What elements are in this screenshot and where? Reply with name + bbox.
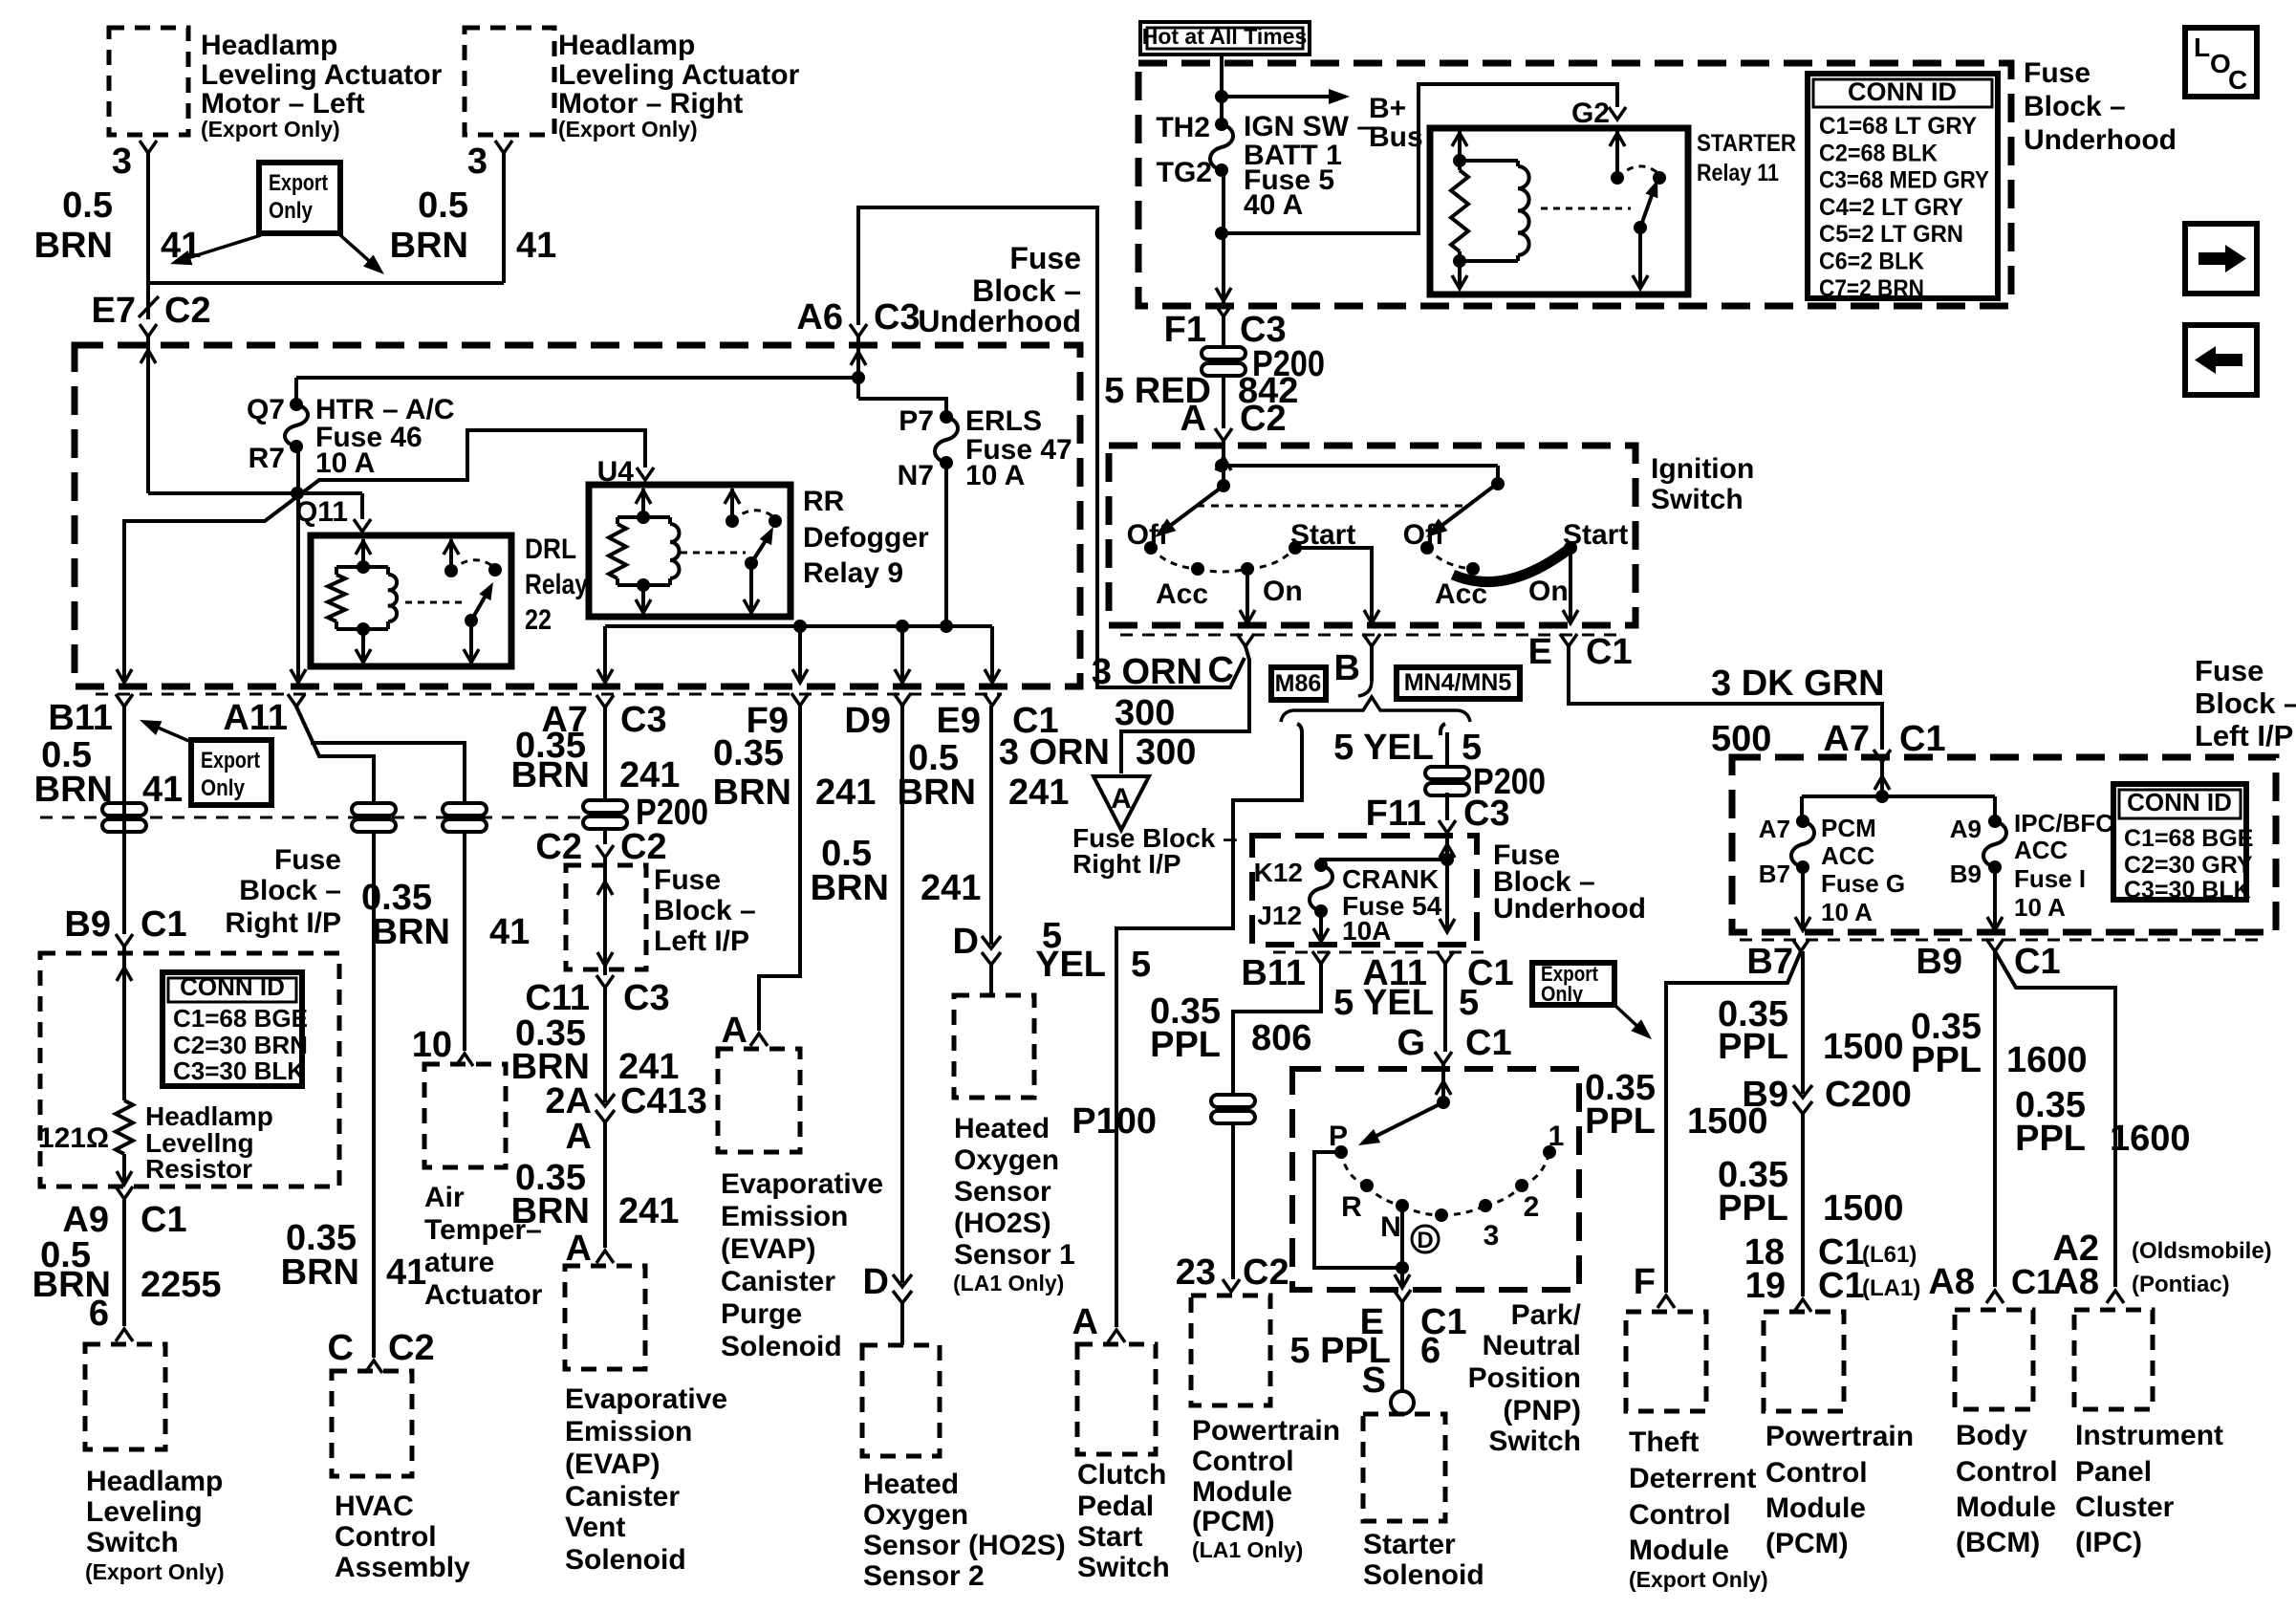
connector F theft module bbox=[1634, 1262, 1675, 1308]
svg-text:B9: B9 bbox=[1742, 1075, 1788, 1115]
svg-text:(PNP): (PNP) bbox=[1503, 1395, 1581, 1426]
svg-text:19: 19 bbox=[1745, 1266, 1786, 1306]
wire joining actuators bbox=[148, 281, 504, 285]
svg-text:Headlamp: Headlamp bbox=[201, 30, 337, 61]
connector G2 starter relay bbox=[1571, 98, 1626, 129]
svg-text:D9: D9 bbox=[844, 701, 891, 741]
wire E C1 3 DK GRN to A7 bbox=[1569, 646, 1882, 750]
connector A8 C1 bcm bbox=[1928, 1262, 2055, 1303]
svg-text:121Ω: 121Ω bbox=[38, 1122, 109, 1154]
starter relay coil lower pin bbox=[1452, 261, 1467, 289]
svg-text:PPL: PPL bbox=[1150, 1025, 1221, 1065]
wire A11 to G C1 bbox=[1443, 964, 1447, 1052]
svg-text:(Export Only): (Export Only) bbox=[558, 117, 698, 142]
arrow B+ Bus bbox=[1222, 89, 1423, 153]
label 5 YEL 5 clutch branch bbox=[1035, 916, 1151, 985]
label RR Defogger Relay 9 bbox=[803, 486, 929, 589]
pnp position labels bbox=[1329, 1121, 1564, 1253]
wire B11 to P100 branch bbox=[1233, 964, 1321, 1279]
svg-text:C: C bbox=[2228, 65, 2247, 95]
connector B7 left IP output bbox=[1746, 939, 1809, 982]
svg-text:C4=2 LT GRY: C4=2 LT GRY bbox=[1819, 194, 1963, 221]
connector A7 C1 left IP bbox=[1823, 719, 1945, 762]
svg-text:BRN: BRN bbox=[511, 1191, 590, 1231]
wire B9 fuse down bbox=[1987, 867, 2003, 930]
ignition switch box (dashed) bbox=[1109, 446, 1635, 625]
svg-text:C11: C11 bbox=[525, 978, 590, 1018]
wire B7 theft branch bbox=[1666, 951, 1801, 1293]
connector C C2 hvac bbox=[328, 1328, 435, 1373]
wire B with hook bbox=[1358, 646, 1372, 696]
label headlamp levelling resistor bbox=[145, 1101, 273, 1184]
svg-text:A6: A6 bbox=[796, 297, 843, 337]
pnp blade to P bbox=[1358, 1102, 1443, 1145]
label PCM ACC Fuse G 10 A bbox=[1821, 814, 1905, 926]
inline connector B9 C200 bbox=[1742, 1075, 1911, 1115]
svg-text:41: 41 bbox=[142, 770, 183, 810]
connector F11 C3 bbox=[1366, 793, 1510, 834]
svg-text:RR: RR bbox=[803, 486, 845, 517]
svg-text:Oxygen: Oxygen bbox=[954, 1144, 1059, 1176]
grommet B11 wire bbox=[102, 803, 146, 832]
wire and grommet P200 F1 bbox=[1202, 316, 1325, 428]
ignition switch 1 positions bbox=[1127, 519, 1356, 610]
svg-text:PPL: PPL bbox=[1718, 1027, 1788, 1067]
label fuse block left IP (pass-through) bbox=[654, 864, 756, 957]
bus wire to connectors A7 F9 D9 E9 bbox=[597, 620, 1000, 683]
wire F9 to evap purge bbox=[759, 706, 800, 1031]
wire B9 to BCM bbox=[1993, 951, 1997, 1287]
svg-text:3 ORN: 3 ORN bbox=[1092, 652, 1202, 692]
wire rail to IPC BFC fuse bbox=[1993, 796, 1997, 821]
label body control module BCM bbox=[1956, 1420, 2058, 1558]
svg-text:E7: E7 bbox=[92, 291, 136, 331]
conn id table underhood bbox=[1808, 74, 1998, 302]
label 0.35 BRN 41 hvac wire bbox=[281, 1218, 427, 1293]
svg-text:(EVAP): (EVAP) bbox=[565, 1448, 660, 1480]
svg-text:Export: Export bbox=[269, 170, 328, 196]
svg-text:C1=68 LT GRY: C1=68 LT GRY bbox=[1819, 113, 1977, 140]
connector A11 C1 crank output bbox=[1362, 951, 1513, 993]
svg-text:G: G bbox=[1397, 1023, 1425, 1063]
svg-text:BRN: BRN bbox=[34, 226, 113, 266]
svg-text:Fuse: Fuse bbox=[654, 864, 721, 896]
label headlamp leveling actuator motor right bbox=[558, 30, 800, 142]
headlamp leveling switch box bbox=[85, 1344, 165, 1449]
svg-text:A: A bbox=[566, 1229, 592, 1269]
hot at all times box bbox=[1140, 22, 1310, 54]
svg-text:300: 300 bbox=[1136, 732, 1196, 773]
starter relay coil bbox=[1453, 161, 1529, 268]
svg-text:Q11: Q11 bbox=[295, 496, 348, 528]
connector B11 crank output bbox=[1241, 951, 1330, 993]
wire A7 into left IP rail bbox=[1802, 762, 1995, 803]
svg-text:Headlamp: Headlamp bbox=[86, 1466, 223, 1497]
connector A evap purge solenoid bbox=[722, 1011, 768, 1051]
svg-text:41: 41 bbox=[386, 1252, 426, 1293]
connector C2 C2 bbox=[535, 827, 666, 867]
wire E7 into fuse block bbox=[141, 337, 156, 493]
svg-text:Module: Module bbox=[1192, 1476, 1292, 1508]
connector U4 defogger relay bbox=[597, 456, 654, 488]
connector boundary line below fuse block bbox=[96, 693, 1002, 696]
svg-text:(EVAP): (EVAP) bbox=[721, 1233, 815, 1265]
svg-text:MN4/MN5: MN4/MN5 bbox=[1404, 669, 1512, 696]
svg-text:C2: C2 bbox=[388, 1328, 435, 1368]
instrument panel cluster box bbox=[2074, 1310, 2153, 1409]
svg-text:N7: N7 bbox=[898, 460, 934, 491]
svg-text:3: 3 bbox=[1484, 1220, 1500, 1252]
inline connector 2A C413 bbox=[545, 1081, 706, 1122]
svg-text:Acc: Acc bbox=[1435, 578, 1487, 610]
svg-text:C413: C413 bbox=[620, 1081, 707, 1121]
svg-text:41: 41 bbox=[489, 912, 530, 952]
fuse 54 CRANK K12 J12 bbox=[1254, 858, 1332, 930]
label headlamp leveling switch bbox=[85, 1466, 225, 1584]
svg-text:B9: B9 bbox=[64, 904, 111, 945]
svg-text:STARTER: STARTER bbox=[1697, 130, 1796, 157]
svg-text:10 A: 10 A bbox=[965, 460, 1025, 491]
label 5 YEL 5 F11 branch bbox=[1333, 728, 1482, 768]
svg-text:10 A: 10 A bbox=[2014, 893, 2066, 922]
fuse block left IP box (dashed) bbox=[1732, 757, 2276, 932]
LOC reference box bbox=[2185, 28, 2257, 97]
wire ignition feed rail bbox=[1215, 441, 1505, 492]
resistor 121 ohm headlamp levelling bbox=[38, 1100, 133, 1154]
svg-text:PCM: PCM bbox=[1821, 814, 1876, 842]
svg-text:On: On bbox=[1528, 576, 1569, 607]
DRL relay coil pin bbox=[356, 539, 371, 574]
svg-text:Park/: Park/ bbox=[1511, 1299, 1582, 1331]
svg-text:L: L bbox=[2194, 33, 2210, 62]
label evap canister purge solenoid bbox=[721, 1168, 883, 1362]
svg-text:3 DK GRN: 3 DK GRN bbox=[1711, 664, 1885, 704]
svg-text:300: 300 bbox=[1115, 693, 1175, 733]
svg-text:5 YEL: 5 YEL bbox=[1333, 728, 1434, 768]
ignition switch 1 Start to B output bbox=[1295, 548, 1372, 621]
connector G C1 pnp bbox=[1397, 1023, 1511, 1064]
ignition switch 2 Start to E output bbox=[1569, 548, 1572, 621]
connector E9 C1 bbox=[937, 693, 1059, 741]
wire D9 to HO2S sensor 2 bbox=[811, 706, 982, 1283]
svg-text:HVAC: HVAC bbox=[335, 1491, 414, 1522]
svg-text:S: S bbox=[1362, 1361, 1386, 1401]
export only callout box 2 bbox=[191, 740, 271, 805]
label park neutral position switch bbox=[1468, 1299, 1582, 1457]
wire G into pnp bbox=[1436, 1064, 1451, 1109]
svg-text:Vent: Vent bbox=[565, 1512, 625, 1543]
connector pcm 18 19 bbox=[1794, 1299, 1811, 1312]
DRL relay coil bbox=[336, 567, 397, 636]
svg-text:Headlamp: Headlamp bbox=[145, 1101, 273, 1131]
wire C11 to C413 bbox=[511, 988, 680, 1102]
svg-text:C2=30 BRN: C2=30 BRN bbox=[173, 1031, 308, 1059]
label DRL Relay 22 bbox=[525, 533, 588, 636]
svg-text:G2: G2 bbox=[1571, 98, 1610, 129]
wire TG2 down to F1 bbox=[1215, 170, 1231, 303]
fuse 46 HTR A/C Q7 R7 bbox=[247, 378, 308, 474]
label 3 ORN 300 (upper) bbox=[1092, 652, 1202, 733]
svg-text:A8: A8 bbox=[2052, 1262, 2099, 1302]
svg-text:B9: B9 bbox=[1950, 860, 1982, 888]
svg-text:Relay 11: Relay 11 bbox=[1697, 160, 1779, 186]
wire resistor to A9 bbox=[117, 1154, 132, 1185]
fuse block underhood crank box (dashed) bbox=[1252, 836, 1477, 945]
svg-text:CONN ID: CONN ID bbox=[180, 972, 285, 1001]
svg-text:C: C bbox=[1208, 650, 1234, 690]
svg-text:241: 241 bbox=[815, 773, 876, 813]
evap canister purge solenoid box bbox=[718, 1049, 800, 1152]
svg-text:Fuse G: Fuse G bbox=[1821, 869, 1905, 898]
svg-text:0.5: 0.5 bbox=[62, 185, 113, 226]
svg-text:BRN: BRN bbox=[511, 755, 590, 795]
svg-text:Canister: Canister bbox=[565, 1481, 680, 1513]
svg-text:3: 3 bbox=[467, 142, 487, 182]
svg-text:Clutch: Clutch bbox=[1077, 1459, 1166, 1491]
fuse I IPC BFC ACC A9 B9 bbox=[1950, 815, 2006, 888]
clutch pedal start switch box bbox=[1077, 1344, 1156, 1454]
svg-text:Oxygen: Oxygen bbox=[863, 1499, 968, 1531]
svg-text:Left I/P: Left I/P bbox=[2195, 719, 2293, 752]
wire hot feed down bbox=[1215, 54, 1228, 124]
svg-text:Motor – Left: Motor – Left bbox=[201, 88, 365, 120]
wire through left IP box bbox=[597, 858, 613, 975]
svg-text:(Export Only): (Export Only) bbox=[85, 1559, 225, 1584]
svg-text:Solenoid: Solenoid bbox=[1363, 1559, 1484, 1591]
RR relay resistor bbox=[609, 517, 670, 585]
svg-text:D: D bbox=[1417, 1228, 1433, 1253]
svg-text:C1: C1 bbox=[141, 904, 187, 945]
svg-text:Hot at All Times: Hot at All Times bbox=[1142, 24, 1308, 49]
fuse G PCM ACC A7 B7 bbox=[1759, 815, 1814, 888]
starter relay linkage bbox=[1541, 207, 1631, 210]
svg-text:Sensor 2: Sensor 2 bbox=[863, 1560, 985, 1592]
grommet hvac wire bbox=[352, 803, 396, 832]
svg-text:2: 2 bbox=[1524, 1191, 1540, 1223]
arrows at ignition box bottom bbox=[1240, 610, 1578, 623]
svg-text:A: A bbox=[1072, 1302, 1098, 1342]
svg-text:IGN SW –: IGN SW – bbox=[1244, 111, 1373, 142]
svg-text:Purge: Purge bbox=[721, 1298, 802, 1330]
svg-text:(BCM): (BCM) bbox=[1956, 1527, 2040, 1558]
svg-text:23: 23 bbox=[1176, 1252, 1216, 1293]
svg-text:Off: Off bbox=[1403, 519, 1445, 551]
wire B+ to starter relay G2 bbox=[1222, 84, 1617, 233]
svg-text:Bus: Bus bbox=[1369, 121, 1423, 153]
svg-text:A: A bbox=[1111, 783, 1132, 815]
wire A6 junction to ERLS fuse bbox=[852, 337, 946, 417]
label 0.35 PPL 1600 left bbox=[1911, 1007, 2088, 1080]
wire J12 to B11 bbox=[1313, 911, 1329, 942]
connector 23 C2 pcm bbox=[1176, 1252, 1289, 1293]
connector A11 fuse block output bbox=[223, 694, 305, 738]
svg-text:BRN: BRN bbox=[34, 770, 113, 810]
label 0.35 BRN 241 a7 column bbox=[511, 726, 681, 795]
air temperature actuator box bbox=[424, 1064, 506, 1167]
svg-text:DRL: DRL bbox=[525, 533, 576, 565]
svg-text:Control: Control bbox=[1765, 1457, 1868, 1489]
svg-text:Canister: Canister bbox=[721, 1266, 835, 1297]
DRL relay coil lower pin bbox=[356, 629, 371, 663]
svg-text:C1=68 BGE: C1=68 BGE bbox=[173, 1004, 308, 1033]
svg-text:BRN: BRN bbox=[898, 773, 976, 813]
label heated oxygen sensor HO2S sensor 2 bbox=[863, 1469, 1066, 1592]
svg-text:Left I/P: Left I/P bbox=[654, 925, 749, 957]
svg-text:Neutral: Neutral bbox=[1483, 1330, 1581, 1361]
svg-text:C2: C2 bbox=[620, 827, 667, 867]
RR relay coil lower pin bbox=[636, 585, 651, 613]
svg-text:3: 3 bbox=[112, 142, 132, 182]
svg-text:Acc: Acc bbox=[1156, 578, 1208, 610]
wire F11 through crank box bbox=[1440, 833, 1455, 932]
svg-text:Sensor 1: Sensor 1 bbox=[954, 1239, 1075, 1271]
svg-text:B+: B+ bbox=[1369, 93, 1406, 124]
svg-text:K12: K12 bbox=[1254, 858, 1303, 887]
label powertrain control module PCM LA1 bbox=[1192, 1415, 1340, 1562]
label IPC BFC ACC Fuse I 10 A bbox=[2014, 809, 2113, 922]
svg-text:Control: Control bbox=[1629, 1499, 1731, 1531]
svg-text:R7: R7 bbox=[249, 443, 285, 474]
svg-text:10: 10 bbox=[412, 1025, 452, 1065]
svg-text:B7: B7 bbox=[1746, 942, 1793, 982]
svg-text:(HO2S): (HO2S) bbox=[954, 1208, 1051, 1239]
svg-text:Only: Only bbox=[201, 775, 246, 801]
svg-text:Off: Off bbox=[1127, 519, 1169, 551]
label fuse block right IP (triangle) bbox=[1072, 823, 1238, 879]
pnp position dots and arc bbox=[1334, 1145, 1556, 1222]
connector pin 3 left actuator bbox=[112, 141, 157, 182]
svg-text:Theft: Theft bbox=[1629, 1426, 1699, 1458]
pnp N wire to E output bbox=[1395, 1206, 1410, 1288]
svg-text:241: 241 bbox=[618, 1191, 679, 1231]
svg-text:PPL: PPL bbox=[1718, 1188, 1788, 1229]
headlamp leveling resistor box (dashed) bbox=[40, 953, 339, 1186]
starter relay coil pin bbox=[1452, 131, 1467, 167]
svg-text:C1: C1 bbox=[2014, 942, 2061, 982]
wire R7 down to A11 bbox=[291, 446, 306, 683]
wire B right branch to F11 bbox=[1440, 724, 1447, 770]
label 0.35 PPL 1600 right bbox=[2015, 1085, 2191, 1159]
label 5 RED 842 bbox=[1104, 371, 1298, 411]
label 0.35 PPL theft bbox=[1585, 1068, 1768, 1142]
wire D to sensor2 box bbox=[900, 1303, 904, 1345]
svg-text:C3: C3 bbox=[620, 700, 667, 740]
svg-text:C6=2 BLK: C6=2 BLK bbox=[1819, 249, 1924, 275]
svg-text:IPC/BFC: IPC/BFC bbox=[2014, 809, 2113, 838]
label clutch pedal start switch bbox=[1077, 1459, 1170, 1583]
svg-text:500: 500 bbox=[1711, 719, 1771, 759]
svg-text:Assembly: Assembly bbox=[335, 1552, 470, 1583]
fuse block underhood top (big dashed box) bbox=[1138, 63, 2011, 306]
svg-text:C2=30 GRY: C2=30 GRY bbox=[2124, 852, 2253, 879]
wire B7 fuse down bbox=[1795, 867, 1810, 930]
crank boundary dashed line bbox=[1273, 951, 1489, 954]
svg-text:BRN: BRN bbox=[713, 773, 791, 813]
svg-text:N: N bbox=[1380, 1211, 1401, 1243]
svg-text:C2: C2 bbox=[535, 827, 582, 867]
svg-text:CONN ID: CONN ID bbox=[1848, 77, 1957, 106]
svg-text:A9: A9 bbox=[62, 1200, 109, 1240]
label 0.35 PPL 1500 upper bbox=[1718, 994, 1904, 1067]
wire B7 main to C200 bbox=[1801, 951, 1805, 1094]
svg-text:Powertrain: Powertrain bbox=[1765, 1421, 1914, 1452]
connector C11 C3 bbox=[525, 975, 669, 1018]
svg-text:Heated: Heated bbox=[954, 1113, 1050, 1144]
svg-text:Ignition: Ignition bbox=[1651, 453, 1754, 485]
connector A6 C3 bbox=[796, 297, 920, 365]
svg-text:Starter: Starter bbox=[1363, 1529, 1456, 1560]
inline connector E7 C2 bbox=[92, 283, 211, 337]
arrow right reference box bbox=[2185, 224, 2257, 294]
svg-text:PPL: PPL bbox=[1585, 1101, 1656, 1142]
svg-text:5 YEL: 5 YEL bbox=[1333, 983, 1434, 1023]
label theft deterrent control module bbox=[1629, 1426, 1768, 1592]
grommet P200 F11 bbox=[1425, 762, 1546, 802]
svg-text:(Export Only): (Export Only) bbox=[1629, 1567, 1768, 1592]
svg-text:Control: Control bbox=[335, 1521, 437, 1553]
svg-text:C200: C200 bbox=[1825, 1075, 1912, 1115]
wire fuse46 to A6 junction bbox=[296, 376, 858, 380]
svg-text:Leveling Actuator: Leveling Actuator bbox=[201, 59, 443, 91]
label IGN SW BATT 1 Fuse 5 40 A bbox=[1244, 111, 1373, 221]
label 0.5 BRN 41 B11 bbox=[34, 735, 184, 810]
DRL relay 22 box bbox=[311, 535, 511, 666]
wire 0.5 BRN 41 left actuator bbox=[34, 153, 202, 283]
svg-text:CONN ID: CONN ID bbox=[2127, 788, 2232, 816]
svg-text:C7=2 BRN: C7=2 BRN bbox=[1819, 275, 1924, 302]
connector Q11 DRL relay bbox=[295, 496, 371, 532]
svg-text:Actuator: Actuator bbox=[424, 1279, 543, 1311]
svg-text:E: E bbox=[1528, 632, 1552, 672]
svg-text:F1: F1 bbox=[1164, 310, 1206, 350]
svg-text:(LA1): (LA1) bbox=[1862, 1275, 1920, 1301]
export only arrow right bbox=[340, 235, 384, 274]
label headlamp leveling actuator motor left bbox=[201, 30, 443, 142]
svg-text:Solenoid: Solenoid bbox=[721, 1331, 842, 1362]
svg-text:Block –: Block – bbox=[972, 273, 1081, 308]
connector A2 A8 ipc bbox=[2052, 1229, 2124, 1303]
label HTR A/C Fuse 46 10 A bbox=[315, 394, 455, 479]
svg-text:Fuse: Fuse bbox=[2024, 57, 2090, 89]
svg-text:Only: Only bbox=[269, 198, 314, 224]
connector B9 C1 bbox=[64, 904, 186, 947]
connector pin 3 right actuator bbox=[467, 141, 512, 182]
heated oxygen sensor 2 box bbox=[862, 1345, 940, 1456]
pnp P wire loop bbox=[1314, 1152, 1402, 1268]
svg-text:E9: E9 bbox=[937, 701, 981, 741]
MN4/MN5 box bbox=[1397, 667, 1520, 699]
svg-text:5: 5 bbox=[1459, 983, 1479, 1023]
svg-text:Only: Only bbox=[1541, 982, 1584, 1006]
label heated oxygen sensor HO2S sensor 1 bbox=[953, 1113, 1075, 1295]
svg-text:(LA1 Only): (LA1 Only) bbox=[953, 1271, 1064, 1295]
svg-text:Position: Position bbox=[1468, 1362, 1581, 1394]
svg-text:0.35: 0.35 bbox=[713, 733, 784, 773]
svg-text:ACC: ACC bbox=[1821, 841, 1875, 870]
svg-text:C1=68 BGE: C1=68 BGE bbox=[2124, 825, 2254, 852]
svg-text:Resistor: Resistor bbox=[145, 1154, 252, 1184]
svg-text:Cluster: Cluster bbox=[2075, 1491, 2175, 1523]
svg-text:Motor – Right: Motor – Right bbox=[558, 88, 743, 120]
arrow left reference box bbox=[2185, 325, 2257, 395]
svg-text:ACC: ACC bbox=[2014, 836, 2069, 864]
export only arrow 2 bbox=[140, 720, 191, 742]
label STARTER Relay 11 bbox=[1697, 130, 1796, 186]
svg-text:(Export Only): (Export Only) bbox=[201, 117, 340, 142]
inline connector D HO2S1 bbox=[953, 922, 1001, 965]
svg-text:Q7: Q7 bbox=[247, 394, 285, 425]
svg-text:C1: C1 bbox=[1899, 719, 1946, 759]
